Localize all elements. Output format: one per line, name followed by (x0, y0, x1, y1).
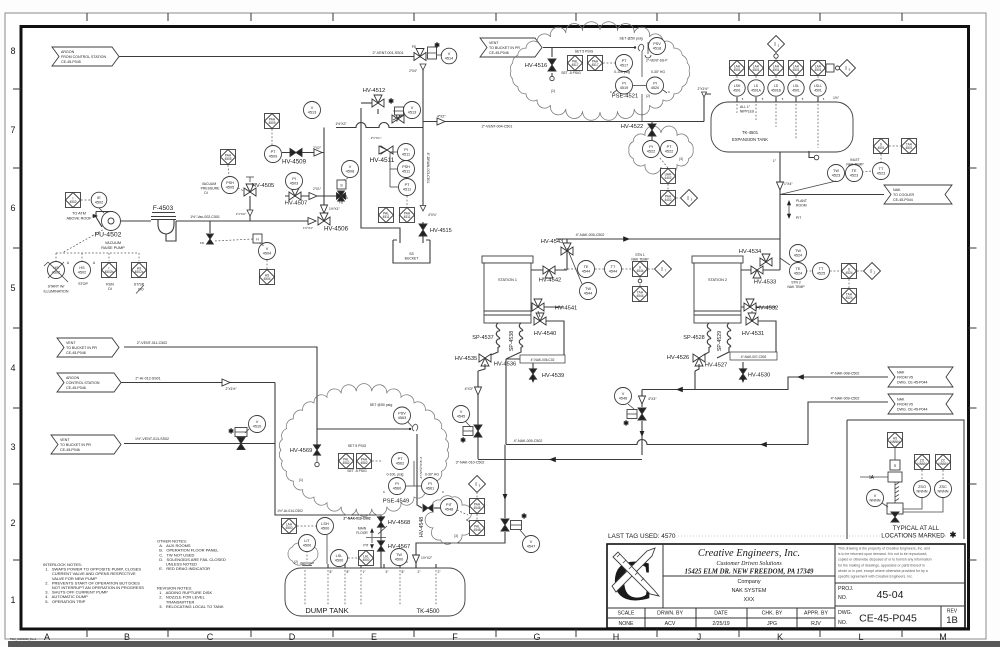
svg-text:VACUUM: VACUUM (202, 182, 217, 186)
svg-text:APPR. BY: APPR. BY (804, 611, 828, 617)
instrument TW-4500 (391, 549, 408, 566)
svg-text:HV-4533: HV-4533 (754, 280, 777, 286)
svg-text:4525: 4525 (817, 272, 825, 276)
instrument PI-4522 (643, 141, 660, 158)
svg-text:K: K (777, 632, 783, 642)
svg-text:(2): (2) (646, 94, 650, 98)
svg-text:4502: 4502 (69, 200, 76, 204)
svg-text:4517: 4517 (591, 63, 598, 67)
svg-text:TE: TE (852, 169, 857, 173)
svg-text:CE-45-P046: CE-45-P046 (60, 448, 80, 452)
svg-text:FROM V5: FROM V5 (897, 403, 913, 407)
svg-text:HV-4505: HV-4505 (252, 183, 275, 189)
svg-text:4″-NAK-007-C502: 4″-NAK-007-C502 (741, 355, 767, 359)
svg-text:HV-4530: HV-4530 (748, 373, 771, 379)
svg-text:VENT: VENT (60, 438, 70, 442)
svg-text:HV-4534: HV-4534 (739, 249, 762, 255)
svg-text:HV-4511: HV-4511 (370, 157, 395, 164)
svg-text:IA: IA (869, 475, 874, 481)
inlet nak temp group (828, 165, 845, 182)
revision cloud bottom PSE-4549 (279, 384, 448, 517)
svg-text:4523: 4523 (832, 174, 840, 178)
svg-text:1½″-VENT-013-SS02: 1½″-VENT-013-SS02 (135, 437, 169, 441)
svg-text:specific agreement with Creati: specific agreement with Creative Enginee… (838, 575, 913, 579)
svg-text:1½″-Ar-014-C502: 1½″-Ar-014-C502 (277, 509, 303, 513)
svg-text:TK-4501: TK-4501 (742, 130, 759, 135)
svg-text:G: G (533, 632, 540, 642)
svg-text:STATION 1: STATION 1 (498, 278, 517, 282)
svg-text:SET 5 PSIG: SET 5 PSIG (575, 50, 594, 54)
instrument V-4513 left (304, 102, 321, 119)
svg-text:4522: 4522 (647, 150, 655, 154)
instrument LSH-4500 (317, 518, 334, 535)
svg-text:4510: 4510 (253, 425, 261, 429)
wire argon 2in-Ar-012-SS01 (121, 382, 275, 384)
diamond I-7 station1 (655, 261, 672, 278)
svg-text:TK-4500: TK-4500 (416, 609, 440, 615)
svg-text:4″-NAK-009-C502: 4″-NAK-009-C502 (514, 439, 543, 443)
station2 drain valve (638, 408, 646, 420)
wire NAK-010 run (478, 459, 642, 461)
valve HV-4567 (377, 541, 384, 551)
instrument PT-4509 (265, 146, 282, 163)
svg-text:15425 ELM DR. NEW FREEDOM, PA: 15425 ELM DR. NEW FREEDOM, PA 17349 (685, 569, 815, 576)
title table columns (644, 608, 646, 628)
small box above V-4504 (253, 234, 262, 243)
svg-text:4500: 4500 (362, 558, 369, 562)
wire station2 inlet (741, 269, 780, 271)
wire tank vent connection (704, 94, 711, 122)
svg-text:DI: DI (204, 191, 207, 195)
svg-text:TO BUCKET IN PR: TO BUCKET IN PR (60, 443, 91, 447)
svg-text:HV-4543: HV-4543 (541, 239, 564, 245)
instrument TT-4544 (605, 261, 622, 278)
svg-text:PT: PT (405, 183, 411, 187)
valve HV-4568 (377, 517, 384, 527)
valve HV-4535/4536 (479, 354, 491, 362)
wire station1 drain x478 (477, 371, 479, 459)
wire HV-4509 branch (282, 152, 324, 154)
svg-text:VENT: VENT (489, 41, 499, 45)
valve HV-4512 (372, 99, 384, 107)
svg-text:ABOVE ROOF: ABOVE ROOF (66, 217, 92, 221)
svg-text:STOP: STOP (78, 282, 88, 286)
svg-text:4502b: 4502b (105, 270, 114, 274)
svg-text:4402: 4402 (664, 198, 671, 202)
control valve w/ V-4513 top (392, 115, 404, 123)
pump PU-4502 (102, 212, 121, 231)
svg-text:ACV: ACV (665, 621, 676, 627)
svg-text:NAK TEMP: NAK TEMP (787, 285, 805, 289)
square ST/SP DO (132, 263, 147, 278)
svg-text:HV-4526: HV-4526 (667, 355, 690, 361)
instrument PSV-4563 (394, 407, 411, 424)
instrument PT-4562 (392, 453, 409, 470)
wire station1 inlet riser (531, 239, 567, 270)
typical stem hatch (894, 482, 896, 503)
flex SP-4529 (727, 323, 731, 347)
svg-text:4548: 4548 (445, 508, 453, 512)
svg-text:STN 1: STN 1 (635, 253, 645, 257)
instrument PI-4519 (616, 77, 633, 94)
flag VENT TO BUCKET IN PR CE-45-P046 lower (51, 435, 121, 454)
svg-text:CHK. BY: CHK. BY (762, 611, 783, 617)
svg-text:A: A (44, 632, 50, 642)
svg-text:6: 6 (10, 203, 15, 213)
svg-text:4505: 4505 (226, 186, 234, 190)
svg-text:4524: 4524 (794, 254, 802, 258)
svg-text:4548: 4548 (473, 506, 480, 510)
svg-text:RAISE PUMP: RAISE PUMP (101, 246, 125, 250)
instrument V-4510 (249, 416, 266, 433)
wire HV-4539 drain stub (532, 363, 534, 369)
svg-text:NONE: NONE (619, 621, 635, 627)
svg-text:4501: 4501 (814, 68, 821, 72)
svg-text:DWG. CE-45-P044: DWG. CE-45-P044 (897, 381, 928, 385)
svg-text:V: V (411, 106, 414, 110)
svg-text:HV-4568: HV-4568 (388, 520, 411, 526)
station2 drain reducer (639, 396, 646, 404)
svg-text:4501: 4501 (877, 146, 884, 150)
valve HV-4515 (419, 224, 427, 236)
svg-text:2: 2 (10, 518, 15, 528)
svg-text:4502: 4502 (95, 201, 103, 205)
square S station2 (842, 264, 857, 279)
svg-text:1B: 1B (946, 615, 958, 626)
diamond I-2 station2 (864, 263, 881, 280)
svg-text:V: V (874, 494, 877, 498)
flag NAK FROM V5 DWG CE-45-P044 upper (888, 367, 953, 387)
wire vent 1.5in-VENT-013-SS02 (124, 443, 275, 445)
svg-text:LSL: LSL (336, 554, 343, 558)
revision cloud LIT note2 (288, 543, 318, 565)
svg-text:TO ATM: TO ATM (72, 212, 86, 216)
label PLANT ROOM / PIT (787, 200, 791, 205)
svg-text:4500: 4500 (303, 544, 311, 548)
valve PD dump small (209, 221, 211, 233)
square TAH station1 (633, 287, 648, 302)
instrument TW-4544 (580, 283, 597, 300)
typical detail box (847, 420, 964, 539)
revision cloud PIT-4548 (425, 496, 472, 545)
svg-text:4″X¾″: 4″X¾″ (428, 213, 438, 217)
svg-text:PT: PT (667, 145, 673, 149)
svg-text:PROJ.: PROJ. (838, 586, 853, 592)
instrument PT-4522 (661, 141, 678, 158)
svg-text:4560: 4560 (393, 487, 401, 491)
svg-text:PSE-4521: PSE-4521 (612, 94, 638, 100)
instrument TT-4525 (813, 263, 830, 280)
svg-text:1½″X¾″: 1½″X¾″ (371, 136, 382, 140)
svg-text:ARGON: ARGON (66, 376, 80, 380)
svg-text:SP-4528: SP-4528 (683, 335, 704, 341)
svg-text:LAST TAG USED: 4570: LAST TAG USED: 4570 (608, 533, 676, 540)
instrument PT-4511 (399, 179, 416, 196)
svg-text:TT: TT (611, 265, 616, 269)
wire to cooler flag (780, 194, 884, 196)
svg-text:4511: 4511 (403, 188, 411, 192)
svg-text:H: H (613, 632, 620, 642)
svg-text:NO.: NO. (838, 620, 847, 626)
svg-text:4: 4 (10, 363, 15, 373)
svg-text:SET @50 psig: SET @50 psig (370, 403, 393, 407)
svg-text:DRWN. BY: DRWN. BY (657, 611, 683, 617)
svg-text:4501: 4501 (905, 146, 912, 150)
svg-text:4520: 4520 (651, 86, 659, 90)
instrument PSH-4505 (222, 177, 239, 194)
svg-text:V: V (448, 52, 451, 56)
instrument PIT-4548 (441, 499, 458, 516)
flag ARGON CONTROL STATION CE-45-P046 (57, 373, 121, 392)
square UAH-4402 (661, 169, 676, 184)
svg-text:HV-4548: HV-4548 (419, 517, 425, 537)
svg-text:PLANT: PLANT (796, 199, 807, 203)
wire drain riser 4in-DRAIN-003-C501 (422, 66, 424, 207)
valve FO black (337, 193, 346, 199)
svg-text:LSH: LSH (734, 84, 741, 88)
svg-text:4502c: 4502c (135, 270, 144, 274)
dump tank TK-4500 (285, 568, 465, 616)
instrument LSL-4500 (331, 550, 348, 567)
square TAH station2 (842, 289, 857, 304)
svg-text:NAK: NAK (897, 370, 905, 374)
svg-text:2″-VENT-001-SS01: 2″-VENT-001-SS01 (372, 51, 403, 55)
squares PAH PAL 4548 (470, 499, 485, 514)
svg-text:4″-NAK-006-C02: 4″-NAK-006-C02 (531, 358, 555, 362)
svg-text:0-100, psig: 0-100, psig (387, 473, 404, 477)
revision cloud top PSE-4521 (510, 22, 689, 121)
svg-text:45-04: 45-04 (877, 589, 904, 601)
valve HV-4522 (648, 124, 656, 136)
svg-text:✱: ✱ (228, 428, 234, 436)
svg-text:0-30″ HG: 0-30″ HG (425, 473, 439, 477)
tank drain stub (809, 151, 814, 158)
svg-text:1½″X2″: 1½″X2″ (335, 122, 347, 126)
svg-text:TT: TT (879, 167, 884, 171)
svg-text:✱: ✱ (521, 513, 527, 521)
wire argon header 2in-VENT-001-SS01 (119, 56, 414, 58)
expansion tank TK-4501 (711, 102, 853, 152)
svg-text:HS: HS (79, 266, 85, 270)
svg-text:This drawing is the property o: This drawing is the property of Creative… (838, 547, 930, 551)
svg-text:M: M (939, 632, 947, 642)
svg-text:4501: 4501 (733, 89, 741, 93)
flag NAK TO COOLER CE-45-P044 (884, 185, 952, 204)
svg-text:4″-NAK-009-C502: 4″-NAK-009-C502 (831, 397, 860, 401)
svg-text:4501: 4501 (814, 89, 822, 93)
station 2 vessel (692, 256, 743, 263)
wire station1 loop NAK-006 (531, 306, 564, 308)
valve HV-4532 (744, 303, 756, 311)
svg-text:C: C (207, 632, 214, 642)
instrument LIT-4500 (299, 535, 316, 552)
svg-text:ZSO: ZSO (918, 485, 926, 489)
svg-text:5. OPERATION TRIP: 5. OPERATION TRIP (43, 599, 86, 604)
square LAL-4500 (359, 551, 374, 566)
station1 temp group (561, 247, 573, 255)
hand switch HS-4502 start (48, 262, 65, 279)
svg-text:PSV: PSV (398, 412, 406, 416)
svg-text:HV-4531: HV-4531 (742, 331, 765, 337)
svg-text:4501: 4501 (792, 89, 800, 93)
svg-text:V: V (460, 410, 463, 414)
instrument PI-4561 (422, 478, 439, 495)
flag NAK FROM V5 DWG CE-45-P044 lower (888, 394, 953, 414)
svg-text:CONTROL STATION: CONTROL STATION (66, 381, 100, 385)
svg-text:SET -5 PSIG: SET -5 PSIG (561, 71, 581, 75)
svg-text:4522: 4522 (665, 150, 673, 154)
interlock square above PT-4509 (265, 114, 280, 129)
svg-text:4500: 4500 (321, 527, 329, 531)
svg-text:NAK: NAK (893, 188, 901, 192)
svg-text:TE: TE (584, 265, 589, 269)
svg-text:HV-4522: HV-4522 (621, 124, 644, 130)
svg-text:4562: 4562 (360, 461, 367, 465)
svg-text:4524: 4524 (794, 272, 802, 276)
svg-text:VACUUM: VACUUM (105, 241, 121, 245)
valve HV-4531 (746, 317, 758, 325)
svg-text:IE: IE (97, 196, 101, 200)
svg-text:8: 8 (10, 46, 15, 56)
svg-text:B: B (124, 632, 130, 642)
svg-text:PD: PD (412, 45, 417, 49)
svg-text:PI: PI (404, 148, 408, 152)
wire NaK header 4in-NAK-005-C502 (556, 238, 780, 240)
svg-text:XXX: XXX (744, 597, 755, 603)
svg-text:PT: PT (622, 59, 628, 63)
svg-text:2″-VENT-011-C502: 2″-VENT-011-C502 (137, 341, 168, 345)
svg-text:4518: 4518 (653, 47, 661, 51)
svg-text:HV-4542: HV-4542 (539, 278, 562, 284)
svg-text:V: V (256, 420, 259, 424)
flex SP-4528 (707, 323, 711, 347)
svg-text:PI: PI (395, 482, 399, 486)
svg-text:(1): (1) (551, 89, 555, 93)
typical valve (891, 512, 899, 522)
wire tank outlet riser (779, 152, 781, 270)
svg-text:LSH: LSH (321, 522, 329, 526)
svg-text:TO BUCKET IN PR: TO BUCKET IN PR (489, 46, 520, 50)
diamond I-3 bottom (469, 476, 486, 493)
svg-text:4562: 4562 (342, 461, 349, 465)
svg-text:NNNN: NNNN (938, 490, 949, 494)
svg-text:SET @50 psig: SET @50 psig (619, 37, 642, 41)
valve HV-4516 (548, 59, 556, 71)
squares PAL PAH 4517 (568, 56, 583, 71)
svg-text:ALL 1″: ALL 1″ (740, 105, 751, 109)
title block frame (607, 544, 965, 628)
svg-text:DWG.: DWG. (838, 610, 852, 616)
svg-text:4517: 4517 (620, 64, 628, 68)
svg-text:4563: 4563 (398, 416, 406, 420)
svg-text:4″X3″: 4″X3″ (648, 397, 657, 401)
svg-text:✱: ✱ (950, 531, 957, 540)
svg-text:PT: PT (271, 150, 277, 154)
svg-text:HV-4515: HV-4515 (430, 228, 452, 234)
svg-text:4562: 4562 (396, 462, 404, 466)
flag ARGON FROM CONTROL STATION CE-45-P045 (52, 47, 119, 66)
svg-text:NIPPLES: NIPPLES (740, 110, 755, 114)
instrument V-4513 right (404, 102, 421, 119)
typical HS square (888, 433, 903, 448)
valve HV-4540 (534, 317, 546, 325)
station1 drain valve (474, 425, 482, 437)
svg-text:SP-4538: SP-4538 (509, 331, 515, 351)
svg-text:CE-45-P045: CE-45-P045 (859, 613, 917, 625)
grid ticks sides (13, 88, 21, 90)
svg-text:TT: TT (819, 267, 824, 271)
svg-text:PT: PT (398, 457, 404, 461)
instrument V-4504 (259, 243, 276, 260)
svg-text:PIT: PIT (363, 544, 368, 548)
svg-text:PIT: PIT (796, 216, 801, 220)
station2 temp group (760, 258, 772, 266)
wire vacuum suction (121, 220, 151, 222)
svg-text:INLET: INLET (850, 158, 860, 162)
svg-text:E: E (371, 632, 377, 642)
svg-text:SET -5 PSIG: SET -5 PSIG (347, 469, 367, 473)
valve HV-4511 (381, 146, 393, 154)
svg-text:TO BUCKET IN PR: TO BUCKET IN PR (66, 346, 97, 350)
wire vac riser x324 (323, 128, 325, 206)
valve HV-4507 (289, 192, 301, 200)
svg-text:2″-VENT-SS-P: 2″-VENT-SS-P (646, 59, 668, 63)
instrument PI-4560 (389, 478, 406, 495)
svg-text:V: V (530, 540, 533, 544)
svg-text:LSL: LSL (793, 84, 799, 88)
svg-text:FLOOR: FLOOR (356, 531, 368, 535)
wire HV-4548 to PIT (434, 507, 440, 509)
svg-text:HV-4569: HV-4569 (290, 448, 313, 454)
svg-text:REV: REV (947, 609, 958, 615)
svg-text:3: 3 (10, 442, 15, 452)
svg-text:is to be returned upon demand.: is to be returned upon demand. It is not… (838, 552, 927, 556)
instrument V-4514 (441, 48, 457, 64)
valve HV-4548 (423, 504, 433, 511)
svg-text:F: F (452, 632, 458, 642)
svg-text:LSLL: LSLL (814, 84, 822, 88)
svg-text:✱: ✱ (460, 437, 466, 445)
svg-text:ROOM: ROOM (796, 204, 807, 208)
svg-text:copied or otherwise disposed o: copied or otherwise disposed of or to fu… (838, 558, 932, 562)
svg-text:4500: 4500 (335, 559, 343, 563)
svg-text:V: V (311, 106, 314, 110)
svg-text:4544: 4544 (636, 269, 643, 273)
instrument TW-4524 (790, 245, 807, 262)
svg-text:HV-4539: HV-4539 (542, 373, 565, 379)
svg-text:PIT: PIT (446, 503, 453, 507)
svg-text:HV-4535: HV-4535 (455, 356, 478, 362)
reducer 1x4 on riser (777, 182, 784, 190)
svg-text:4513: 4513 (308, 111, 316, 115)
wire PSV-4563 relief drop (317, 428, 410, 430)
dump tank nozzles (327, 564, 329, 568)
square left of IE-4502 (66, 193, 81, 208)
pump interlock dashed (62, 228, 106, 253)
wire vent header 2in-VENT-004-C501 (423, 121, 704, 123)
svg-text:ARGON: ARGON (61, 50, 75, 54)
svg-text:1½″X1″: 1½″X1″ (303, 226, 313, 230)
svg-text:PSH: PSH (402, 165, 410, 169)
instrument V-4508 (342, 161, 359, 178)
instrument V-4547 (523, 536, 540, 553)
instrument V-4545 (453, 406, 470, 423)
svg-text:4523: 4523 (850, 174, 858, 178)
svg-text:LOCATIONS MARKED: LOCATIONS MARKED (881, 533, 945, 540)
svg-text:HV-4532: HV-4532 (756, 306, 779, 312)
svg-text:TE: TE (796, 267, 801, 271)
svg-text:4545: 4545 (457, 415, 465, 419)
